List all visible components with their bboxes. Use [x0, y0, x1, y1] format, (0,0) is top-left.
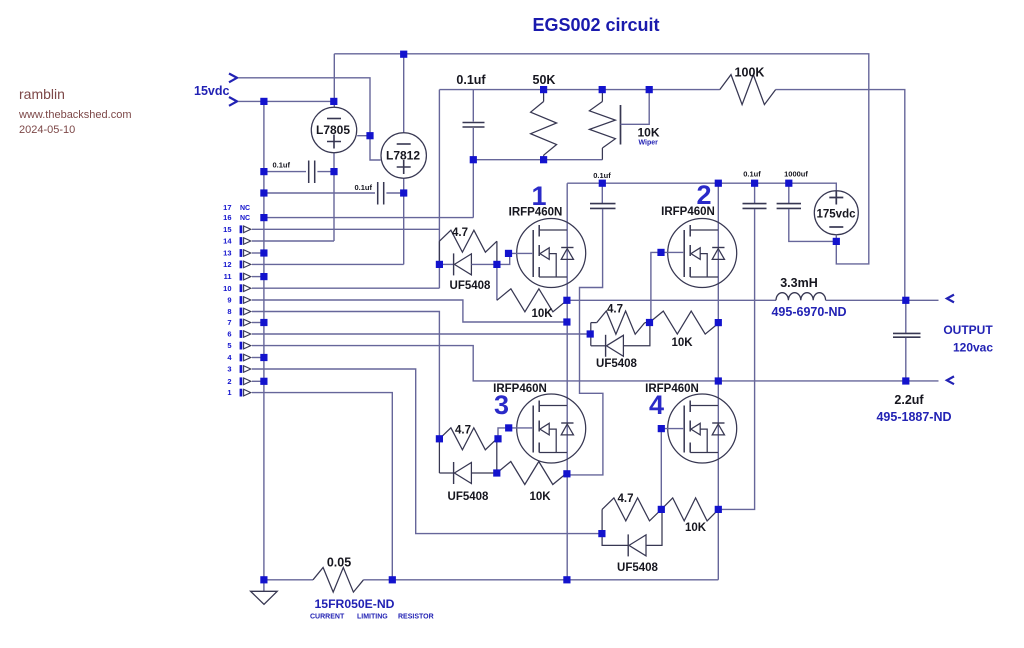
pin 7 — [227, 318, 250, 327]
svg-text:17: 17 — [223, 203, 231, 212]
svg-text:IRFP460N: IRFP460N — [493, 383, 547, 395]
svg-text:2.2uf: 2.2uf — [894, 393, 924, 407]
pin 4 — [227, 353, 250, 362]
resistor R4 10K — [649, 311, 719, 349]
transistor Q1 IRFP460N — [509, 181, 586, 288]
diode D1 UF5408 — [439, 253, 497, 292]
pin 13 — [223, 249, 251, 258]
svg-text:www.thebackshed.com: www.thebackshed.com — [18, 109, 132, 121]
resistor R2 10K — [497, 264, 567, 320]
pin 14 — [223, 237, 251, 246]
wire pin14 — [252, 240, 334, 242]
svg-text:15: 15 — [223, 225, 231, 234]
svg-text:LIMITING: LIMITING — [357, 614, 388, 621]
pin 5 — [227, 341, 250, 350]
svg-text:0.1uf: 0.1uf — [743, 170, 761, 179]
output arrow top — [947, 295, 954, 303]
resistor R8 10K — [661, 498, 718, 534]
wire L7812 top — [403, 54, 405, 133]
wire pin5 to output bottom — [252, 346, 939, 381]
svg-text:9: 9 — [227, 296, 231, 305]
svg-text:3: 3 — [227, 365, 231, 374]
svg-text:IRFP460N: IRFP460N — [661, 206, 715, 218]
potentiometer 10K wiper — [589, 90, 659, 160]
pin 8 — [227, 307, 250, 316]
wire pin3 to block4 — [252, 369, 602, 534]
pin 2 — [227, 377, 250, 386]
svg-text:UF5408: UF5408 — [596, 358, 638, 370]
regulator U2 L7812 — [381, 133, 426, 178]
resistor R5 4.7 — [439, 425, 496, 450]
svg-text:10K: 10K — [638, 126, 660, 140]
wire pin 7 stub — [252, 322, 264, 324]
svg-text:120vac: 120vac — [953, 341, 993, 355]
svg-text:10K: 10K — [531, 308, 553, 320]
pin 16 — [223, 213, 250, 222]
capacitor C3 0.1uf top — [456, 73, 486, 218]
svg-text:16: 16 — [223, 213, 231, 222]
svg-text:495-1887-ND: 495-1887-ND — [876, 410, 951, 424]
svg-text:UF5408: UF5408 — [450, 280, 492, 292]
resistor R7 4.7 — [602, 493, 661, 534]
wire pin6 to block2 — [252, 333, 590, 335]
resistor R9 0.05 — [310, 556, 434, 621]
source V1 175vdc — [814, 191, 858, 242]
wire pin9 to bridge node — [252, 300, 567, 322]
wire left drop x=439 — [438, 90, 440, 289]
wire bridge output to inductor — [567, 299, 776, 301]
svg-text:UF5408: UF5408 — [617, 562, 659, 574]
wire pin15 — [252, 228, 439, 230]
svg-text:15vdc: 15vdc — [194, 84, 229, 98]
svg-text:100K: 100K — [735, 66, 765, 80]
wire 50K bottom line — [473, 159, 602, 161]
wire L7805 top — [333, 54, 335, 108]
svg-text:CURRENT: CURRENT — [310, 614, 345, 621]
svg-text:0.05: 0.05 — [327, 556, 351, 570]
svg-text:4.7: 4.7 — [607, 304, 623, 316]
wire L7812 bottom to pin12 row — [403, 178, 405, 264]
svg-text:NC: NC — [240, 205, 250, 212]
wire pin16 row — [264, 217, 473, 219]
transistor Q3 IRFP460N — [493, 383, 586, 463]
svg-text:175vdc: 175vdc — [816, 209, 856, 221]
wire 15vdc bottom — [238, 100, 334, 102]
svg-text:L7812: L7812 — [386, 149, 420, 163]
resistor R3 4.7 — [591, 304, 650, 346]
junction nodes — [260, 51, 909, 584]
pin 15 — [223, 225, 251, 234]
wire pin 2 stub — [252, 380, 264, 382]
ground — [251, 580, 278, 605]
svg-text:495-6970-ND: 495-6970-ND — [771, 305, 846, 319]
diode D2 UF5408 — [591, 322, 650, 370]
svg-text:0.1uf: 0.1uf — [354, 183, 372, 192]
svg-text:10K: 10K — [685, 522, 707, 534]
resistor 50K — [531, 73, 557, 160]
wire pin8 to block3 — [252, 312, 439, 439]
svg-text:10: 10 — [223, 284, 231, 293]
svg-text:12: 12 — [223, 260, 231, 269]
resistor R1 4.7 — [439, 227, 497, 264]
wire 15vdc top to L7812 input — [238, 78, 381, 160]
svg-text:ramblin: ramblin — [19, 86, 65, 102]
wire half-bridge right rail — [717, 183, 719, 580]
svg-text:UF5408: UF5408 — [448, 491, 490, 503]
diode D3 UF5408 — [439, 439, 496, 503]
svg-text:13: 13 — [223, 249, 231, 258]
svg-text:1000uf: 1000uf — [784, 170, 808, 179]
pin 10 — [223, 284, 251, 293]
svg-text:7: 7 — [227, 318, 231, 327]
wire half-bridge left rail — [566, 183, 568, 580]
transistor Q4 IRFP460N — [645, 383, 737, 463]
svg-text:1: 1 — [227, 388, 231, 397]
svg-text:15FR050E-ND: 15FR050E-ND — [315, 597, 395, 611]
svg-text:10K: 10K — [529, 491, 551, 503]
inductor L1 3.3mH — [771, 276, 846, 319]
resistor R6 10K — [497, 462, 567, 504]
wire pin1 — [252, 393, 392, 580]
capacitor C6 0.1uf bootstrap — [571, 171, 616, 475]
svg-text:2024-05-10: 2024-05-10 — [19, 124, 75, 136]
pin 1 — [227, 388, 250, 397]
diode D4 UF5408 — [602, 509, 662, 574]
pin 9 — [227, 296, 250, 305]
svg-text:5: 5 — [227, 341, 231, 350]
wire ground line right — [364, 579, 719, 581]
wire pin header bus — [263, 101, 265, 579]
capacitor C1 0.1uf — [264, 161, 334, 184]
svg-text:4.7: 4.7 — [452, 227, 468, 239]
wire Q1 gate — [497, 253, 532, 264]
regulator U1 L7805 — [311, 107, 356, 152]
wire drain rail — [567, 183, 836, 191]
wire Q3 gate — [498, 428, 532, 439]
wire Q4 gate — [661, 429, 683, 510]
svg-text:OUTPUT: OUTPUT — [943, 323, 993, 337]
pin 12 — [223, 260, 251, 269]
wire pin10 — [252, 287, 439, 289]
svg-text:EGS002 circuit: EGS002 circuit — [532, 15, 659, 35]
svg-text:0.1uf: 0.1uf — [456, 73, 486, 87]
wire Q2 gate — [651, 252, 683, 322]
svg-text:50K: 50K — [533, 73, 556, 87]
svg-text:4.7: 4.7 — [455, 425, 471, 437]
output arrow bottom — [947, 376, 954, 384]
pin 17 — [223, 203, 250, 212]
wire pin12 — [252, 263, 404, 265]
wire pin 11 stub — [252, 276, 264, 278]
input arrow top — [229, 74, 237, 83]
svg-text:11: 11 — [224, 272, 232, 281]
svg-text:NC: NC — [240, 215, 250, 222]
wire pin 13 stub — [252, 252, 264, 254]
pin 6 — [227, 330, 250, 339]
wire inductor to output — [826, 299, 939, 301]
svg-text:IRFP460N: IRFP460N — [645, 383, 699, 395]
pin 3 — [227, 365, 250, 374]
svg-text:4.7: 4.7 — [618, 493, 634, 505]
input arrow bottom — [229, 97, 237, 106]
wire L7805 output — [357, 135, 370, 137]
capacitor C7 2.2uf — [876, 300, 951, 424]
wire ground line left — [264, 579, 313, 581]
transistor Q2 IRFP460N — [661, 180, 737, 288]
wire top feedback line — [439, 90, 904, 301]
svg-text:IRFP460N: IRFP460N — [509, 207, 563, 219]
svg-text:3.3mH: 3.3mH — [780, 276, 818, 290]
svg-text:6: 6 — [227, 330, 231, 339]
svg-text:8: 8 — [227, 307, 231, 316]
svg-text:Wiper: Wiper — [639, 140, 659, 147]
svg-text:14: 14 — [223, 237, 232, 246]
capacitor C2 0.1uf — [264, 182, 404, 205]
resistor 100K — [720, 66, 776, 105]
pin 11 — [224, 272, 251, 281]
svg-text:L7805: L7805 — [316, 123, 350, 137]
capacitor C4 0.1uf — [719, 170, 767, 510]
svg-text:2: 2 — [227, 377, 231, 386]
wire top rail to 175vdc minus — [334, 54, 869, 264]
wire L7805 bottom to pin14 row — [333, 153, 335, 241]
svg-text:10K: 10K — [671, 337, 693, 349]
capacitor C5 1000uf — [777, 170, 837, 242]
svg-text:0.1uf: 0.1uf — [593, 171, 611, 180]
svg-text:0.1uf: 0.1uf — [272, 161, 290, 170]
svg-text:RESISTOR: RESISTOR — [398, 614, 434, 621]
wire pin 4 stub — [252, 357, 264, 359]
